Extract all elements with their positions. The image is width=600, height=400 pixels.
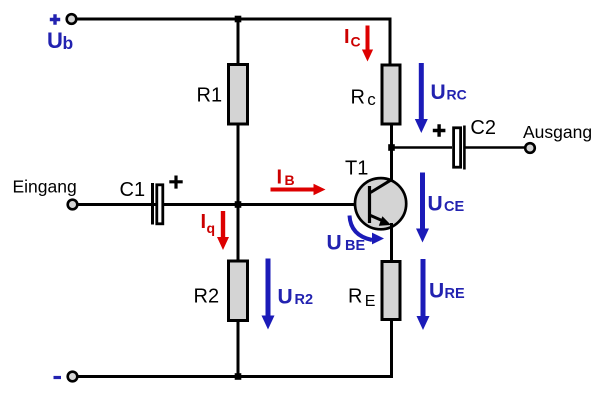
svg-text:U: U (47, 28, 63, 53)
voltage arrow UCE (416, 173, 429, 243)
label Ub (47, 28, 73, 53)
wire emitter to RE top (390, 224, 393, 261)
svg-text:U: U (327, 232, 342, 255)
junction node collector / C2 (388, 144, 395, 151)
voltage arrow UR2 (262, 259, 275, 330)
svg-text:U: U (278, 286, 293, 309)
wire bottom rail from minus terminal to RE branch (78, 320, 392, 377)
svg-text:R: R (351, 87, 365, 109)
svg-text:C2: C2 (470, 117, 496, 139)
label Ic (344, 26, 361, 50)
wire C2 to Ausgang terminal (466, 146, 527, 149)
svg-text:R: R (348, 286, 362, 308)
svg-text:R2: R2 (194, 286, 220, 308)
voltage arrow URE (417, 259, 430, 330)
resistor R2 (229, 261, 248, 321)
wire collector node to C2 (392, 146, 453, 149)
wire Rc bottom to collector node (390, 125, 393, 181)
resistor RE (382, 262, 400, 320)
svg-text:BE: BE (345, 238, 365, 254)
transistor T1 collector lead (371, 177, 392, 193)
svg-text:b: b (63, 33, 74, 53)
svg-text:RE: RE (445, 286, 465, 302)
label UR2 (278, 286, 314, 309)
capacitor C1 negative plate (151, 183, 154, 225)
label minus supply (54, 376, 62, 379)
resistor R1 (229, 65, 248, 125)
svg-text:q: q (207, 220, 216, 236)
junction node divider / base (235, 201, 242, 208)
label Iq (201, 211, 216, 236)
svg-text:R1: R1 (197, 85, 223, 107)
wire left vertical branch R1-R2 (237, 19, 240, 377)
label Rc (351, 87, 377, 110)
label plus C1 (169, 176, 182, 189)
terminal +Ub (67, 14, 77, 24)
label plus C2 (433, 124, 446, 137)
svg-text:CE: CE (444, 199, 464, 215)
svg-text:E: E (365, 293, 376, 310)
svg-text:Eingang: Eingang (13, 177, 77, 197)
voltage arrow URC (415, 63, 428, 133)
svg-text:C1: C1 (120, 179, 146, 201)
current arrow Iq (217, 211, 229, 250)
transistor T1 emitter lead (370, 215, 386, 222)
junction node top rail / R1 (235, 16, 242, 23)
svg-text:T1: T1 (345, 158, 368, 180)
svg-text:R2: R2 (295, 292, 314, 308)
label UCE (428, 193, 465, 216)
svg-text:I: I (344, 26, 350, 48)
svg-text:Ausgang: Ausgang (523, 122, 592, 142)
capacitor C1 positive plate (157, 185, 163, 224)
svg-text:RC: RC (447, 87, 467, 103)
wire top rail from +Ub terminal to Rc branch (77, 19, 390, 64)
transistor T1 base bar (368, 186, 371, 223)
transistor T1 emitter arrowhead (379, 216, 391, 226)
voltage arrow UBE curved (350, 216, 373, 241)
resistor Rc (382, 65, 400, 124)
svg-text:c: c (367, 90, 376, 109)
svg-text:B: B (285, 172, 295, 188)
label RE (348, 286, 375, 311)
current arrow IB (271, 184, 326, 195)
capacitor C2 negative plate (463, 126, 466, 170)
label IB (277, 167, 295, 189)
svg-text:U: U (431, 81, 446, 104)
label UBE (327, 232, 366, 255)
svg-text:C: C (351, 34, 361, 50)
label URC (431, 81, 467, 104)
terminal Ausgang (525, 143, 535, 153)
transistor T1 emitter into wire (390, 223, 393, 230)
svg-text:U: U (428, 193, 443, 216)
wire base line from divider node through C1 to transistor base (78, 203, 369, 206)
svg-text:U: U (429, 280, 444, 303)
label URE (429, 280, 465, 303)
terminal minus (68, 372, 78, 382)
junction node bottom rail / R2 (235, 373, 242, 380)
voltage arrow UBE arrowhead (372, 233, 384, 245)
current arrow Ic (362, 26, 373, 62)
svg-text:I: I (201, 211, 207, 233)
label plus supply (50, 14, 60, 25)
terminal Eingang (68, 200, 78, 210)
transistor T1 body (355, 178, 406, 229)
svg-text:I: I (277, 167, 283, 189)
capacitor C2 positive plate (454, 128, 461, 167)
